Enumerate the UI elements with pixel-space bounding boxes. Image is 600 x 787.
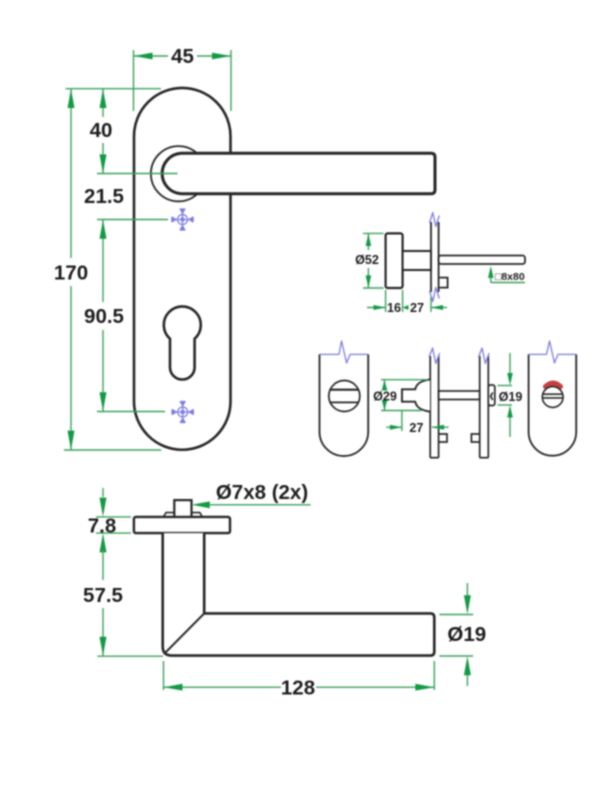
wc side strip turn side	[430, 356, 438, 458]
indicator turn front view	[542, 387, 563, 408]
thumbturn knob side view	[402, 379, 430, 411]
wc spindle	[439, 391, 480, 400]
side view rose disc	[386, 233, 403, 288]
label D7x8 leader	[192, 481, 311, 508]
handle centerline extension	[97, 173, 178, 175]
svg-text:21.5: 21.5	[84, 185, 124, 208]
svg-text:57.5: 57.5	[83, 584, 123, 607]
rose circle front view	[151, 146, 206, 201]
label 8x80 leader	[488, 266, 525, 283]
screw head right	[192, 513, 203, 517]
red indicator cap	[546, 383, 561, 386]
door strip break marks	[430, 213, 440, 302]
svg-text:Ø29: Ø29	[373, 390, 397, 404]
dimension 45 extension lines	[134, 50, 232, 111]
svg-text:Ø19: Ø19	[499, 390, 523, 404]
dimension D52	[355, 233, 383, 288]
dimension 45	[134, 45, 232, 68]
svg-text:16: 16	[387, 301, 401, 315]
dimension 7.8	[88, 488, 117, 537]
svg-text:□8x80: □8x80	[495, 271, 525, 283]
wc lug right strip	[471, 434, 479, 442]
screw axis extension upper	[97, 219, 168, 221]
wc side strip release side	[480, 356, 489, 458]
thumbturn front view	[329, 381, 360, 412]
dimension 16 / 27 side view	[367, 290, 447, 315]
euro cylinder keyhole	[164, 306, 201, 379]
spindle 8x80	[439, 256, 525, 265]
grip bottom extension line	[97, 655, 163, 657]
svg-text:128: 128	[281, 676, 315, 699]
dimension 90.5	[84, 220, 124, 412]
svg-text:Ø19: Ø19	[447, 623, 486, 646]
dimension 170	[54, 89, 88, 450]
dimension 40	[90, 89, 113, 174]
lever side view rose disc	[134, 517, 230, 533]
svg-text:Ø52: Ø52	[355, 253, 379, 267]
svg-text:27: 27	[410, 301, 424, 315]
strip break mark	[429, 348, 440, 364]
screw axis extension lower	[97, 411, 165, 413]
indicator plate top break	[529, 341, 577, 363]
svg-text:40: 40	[90, 119, 113, 142]
dimension 57.5	[83, 533, 123, 656]
fixing lug side view	[440, 278, 448, 288]
wc plate top break	[320, 341, 369, 363]
dimension D19 grip	[439, 583, 486, 686]
wc plate front view indicator side	[529, 354, 577, 455]
svg-text:90.5: 90.5	[84, 305, 124, 328]
release knob side view	[488, 385, 495, 406]
dimension 128	[164, 661, 435, 699]
svg-text:45: 45	[171, 45, 194, 68]
lever handle front view	[162, 153, 435, 194]
plate bottom extension line	[64, 449, 161, 451]
screw fixing symbol upper	[171, 209, 194, 230]
screw head left	[164, 513, 175, 517]
spindle stub	[174, 500, 191, 517]
side view door strip	[431, 222, 439, 292]
plate top extension line	[66, 88, 162, 90]
dimension 27 wc	[386, 411, 448, 435]
svg-text:170: 170	[54, 262, 88, 285]
wc lug left strip	[439, 434, 447, 442]
strip break mark release side	[479, 348, 490, 364]
svg-text:7.8: 7.8	[88, 514, 117, 537]
backplate front view	[134, 88, 231, 450]
lever side view outline	[163, 533, 435, 656]
screw fixing symbol lower	[171, 402, 194, 423]
dimension D29	[373, 380, 428, 411]
rose disc extension lines	[96, 517, 131, 533]
dimension D19 wc	[498, 353, 523, 437]
svg-text:27: 27	[409, 421, 423, 435]
wc plate front view turn side	[320, 354, 369, 456]
lever mitre joint	[165, 613, 204, 652]
svg-text:Ø7x8 (2x): Ø7x8 (2x)	[216, 481, 308, 504]
side view neck	[403, 251, 431, 270]
